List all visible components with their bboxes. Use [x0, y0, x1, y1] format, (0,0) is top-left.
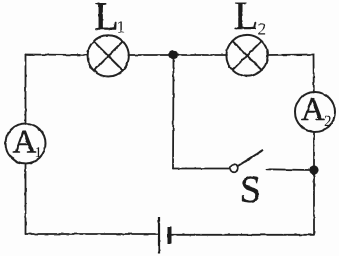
label L1 subscript 1 [118, 22, 124, 33]
wire right vertical upper [313, 55, 315, 93]
label A1 subscript 1 [36, 147, 41, 157]
label L2 letter L [235, 3, 256, 29]
wire middle vertical (junction to switch branch) [172, 55, 175, 169]
switch pivot circle [230, 165, 238, 173]
wire bottom-left horizontal [26, 233, 159, 235]
label S [243, 177, 259, 203]
label L1 letter L [96, 3, 117, 29]
wire bottom-right horizontal [172, 234, 314, 236]
wire switch branch left [173, 168, 230, 170]
junction node (top, between L1 and L2) [169, 50, 178, 59]
wire left vertical lower [25, 164, 27, 235]
wire switch branch right [267, 168, 310, 171]
switch lever (open) [238, 150, 264, 166]
switch S [230, 150, 263, 173]
label A2 letter A [301, 98, 324, 120]
wire left vertical upper [25, 55, 27, 125]
lamp L2 [226, 35, 267, 76]
lamp L1 [88, 35, 129, 76]
ammeter A2 [295, 92, 335, 132]
wire right vertical lower [313, 132, 315, 235]
wire top-right horizontal [268, 54, 314, 57]
wire top-middle horizontal (L1 to L2) [129, 54, 228, 56]
battery short thick plate (negative) [168, 227, 172, 244]
junction node (right, switch branch meets right wire) [309, 165, 318, 174]
battery long plate (positive) [158, 217, 160, 254]
label A1 letter A [13, 131, 36, 153]
label A2 subscript 2 [325, 116, 331, 126]
ammeter A1 [6, 124, 46, 164]
wire top-left horizontal [26, 54, 88, 57]
battery [159, 217, 170, 254]
label L2 subscript 2 [258, 23, 265, 34]
